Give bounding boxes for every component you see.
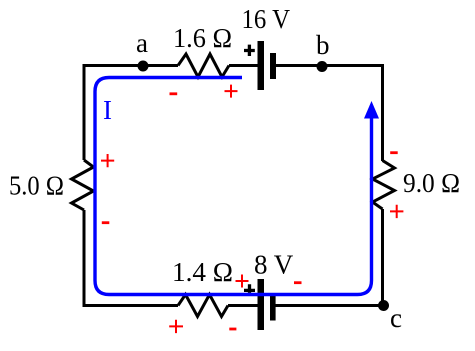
red plus (right resistor bottom polarity)	[390, 205, 403, 218]
node c dot	[378, 300, 389, 311]
red minus (left resistor bottom polarity)	[102, 221, 110, 224]
wire bottom-left segment	[83, 304, 179, 307]
battery V1 plus terminal mark	[244, 45, 255, 56]
svg-text:b: b	[316, 30, 330, 60]
node a dot	[138, 61, 149, 72]
resistor R1 1.6 ohm (top)	[178, 54, 229, 77]
current loop I (blue)	[95, 78, 372, 295]
battery V2 8V short plate	[270, 295, 276, 321]
wire left lower segment	[83, 210, 86, 307]
wire bottom between battery 8V and resistor R3	[228, 304, 258, 307]
battery V2 8V long plate	[258, 279, 265, 330]
svg-text:5.0 Ω: 5.0 Ω	[9, 171, 64, 201]
wire right lower segment	[381, 209, 384, 307]
wire top-right from battery 16V to corner	[276, 64, 384, 67]
svg-text:a: a	[136, 28, 148, 58]
resistor R4 9.0 ohm (right)	[373, 161, 395, 210]
red plus (top, right of R1 polarity)	[225, 85, 238, 98]
red minus (right resistor top polarity)	[390, 151, 398, 154]
wire bottom-right from corner to battery 8V	[275, 304, 384, 307]
red plus (below R3 left polarity)	[169, 320, 183, 333]
svg-text:I: I	[103, 95, 112, 125]
red minus (below R3 right polarity)	[229, 328, 236, 331]
resistor R3 1.4 ohm (bottom)	[178, 295, 228, 317]
red plus (left resistor top polarity)	[101, 154, 114, 167]
battery V1 16V long plate	[258, 41, 265, 90]
wire left upper segment	[83, 64, 86, 160]
svg-text:8 V: 8 V	[254, 250, 294, 280]
wire top between resistor R1 and battery 16V	[229, 64, 258, 67]
svg-text:1.6 Ω: 1.6 Ω	[173, 23, 232, 53]
svg-text:1.4 Ω: 1.4 Ω	[172, 257, 233, 287]
svg-text:c: c	[390, 303, 402, 333]
resistor R2 5.0 ohm (left)	[72, 160, 94, 210]
battery V1 16V short plate	[270, 53, 276, 79]
battery V2 plus terminal mark	[244, 284, 255, 293]
wire right upper segment	[381, 64, 384, 161]
current arrowhead	[364, 101, 379, 119]
node b dot	[317, 61, 328, 72]
svg-text:9.0 Ω: 9.0 Ω	[403, 168, 460, 198]
svg-text:16 V: 16 V	[242, 4, 291, 34]
red minus (bottom, right of 8V battery)	[294, 281, 302, 284]
red minus (top, left of R1 polarity)	[170, 92, 178, 95]
wire top-left segment (node a side)	[83, 64, 179, 67]
red plus (bottom, right of 1.4 ohm label)	[236, 275, 249, 288]
